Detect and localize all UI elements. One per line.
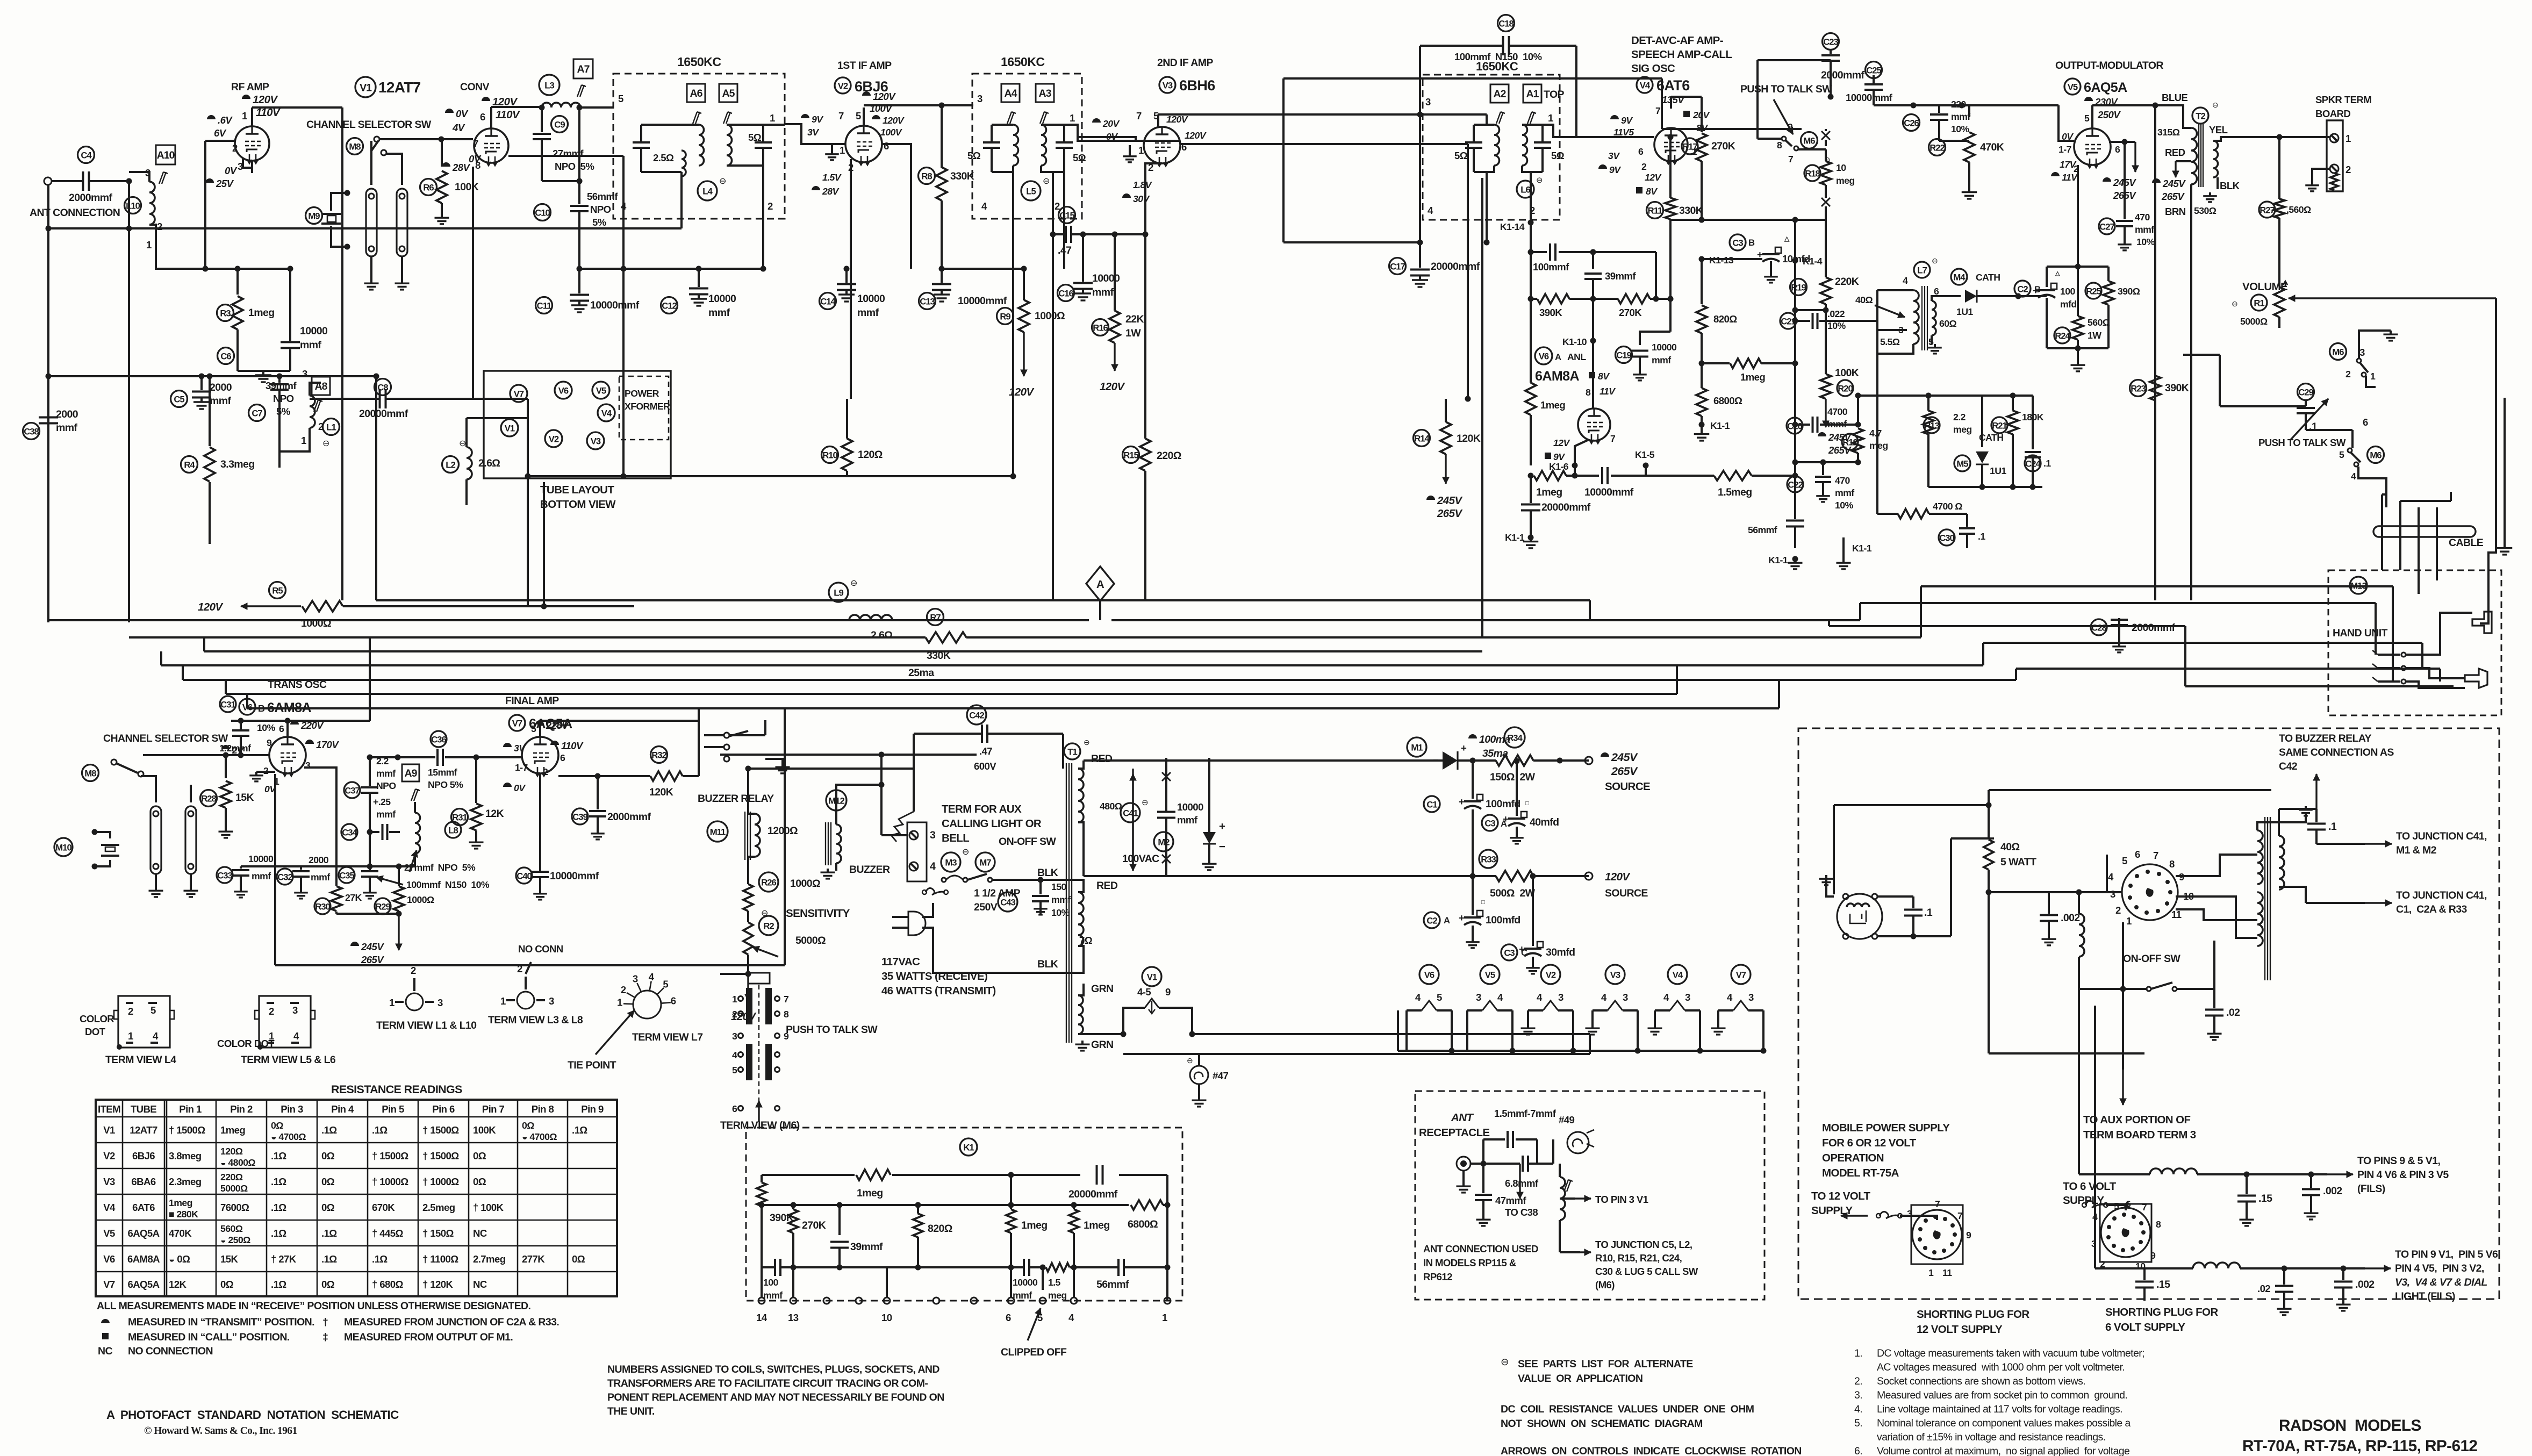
svg-text:C23: C23: [1823, 37, 1838, 47]
svg-text:4: 4: [1497, 992, 1503, 1003]
svg-text:† 120K: † 120K: [422, 1279, 454, 1290]
wire: [52, 180, 70, 182]
svg-text:11: 11: [1942, 1267, 1952, 1278]
wire bus jog L3: [1828, 620, 1830, 626]
svg-text:3: 3: [292, 1005, 298, 1016]
svg-text:mmf: mmf: [1652, 355, 1671, 365]
svg-text:3: 3: [2110, 888, 2115, 900]
svg-text:mmf: mmf: [300, 339, 321, 351]
svg-text:mmf: mmf: [1051, 894, 1071, 905]
svg-text:1meg: 1meg: [857, 1187, 883, 1199]
svg-text:2.2: 2.2: [1953, 412, 1966, 422]
label V1 12AT7: [355, 77, 376, 97]
svg-text:8: 8: [2169, 858, 2175, 870]
svg-text:2000mmf: 2000mmf: [69, 192, 112, 204]
svg-text:C11: C11: [537, 300, 551, 311]
resistor R7 330K: [927, 609, 944, 626]
svg-text:SHORTING PLUG FOR: SHORTING PLUG FOR: [2105, 1306, 2218, 1318]
svg-text:6AT6: 6AT6: [1656, 77, 1690, 94]
wire BRN trunk: [2190, 184, 2192, 600]
svg-text:V1: V1: [103, 1124, 115, 1136]
coil choke: [2079, 914, 2084, 957]
svg-text:7600Ω: 7600Ω: [220, 1202, 249, 1213]
svg-text:100mfd: 100mfd: [1486, 914, 1520, 926]
svg-text:V7: V7: [512, 718, 522, 728]
svg-text:1U1: 1U1: [1956, 306, 1973, 317]
svg-text:.1Ω: .1Ω: [271, 1279, 286, 1290]
resistor 270K: [792, 1205, 794, 1209]
svg-text:2000: 2000: [56, 408, 78, 420]
svg-text:0Ω: 0Ω: [321, 1202, 335, 1213]
svg-text:CALLING LIGHT OR: CALLING LIGHT OR: [942, 817, 1042, 830]
ground: [539, 890, 541, 894]
svg-text:† 1500Ω: † 1500Ω: [372, 1150, 408, 1161]
diode M1: [1407, 737, 1426, 757]
wire M12 top: [836, 785, 881, 795]
coil ant: [1560, 1177, 1565, 1220]
svg-text:4700 Ω: 4700 Ω: [1933, 501, 1962, 512]
svg-text:ARROWS ON CONTROLS INDICATE: ARROWS ON CONTROLS INDICATE CLOCKWISE RO…: [1501, 1445, 1802, 1456]
svg-text:Pin 6: Pin 6: [432, 1103, 455, 1115]
svg-text:COLOR: COLOR: [80, 1013, 114, 1024]
T1 HV secondary: [1078, 769, 1084, 822]
svg-text:3.: 3.: [1854, 1389, 1862, 1401]
wire B+ top: [252, 106, 342, 109]
svg-text:6800Ω: 6800Ω: [1128, 1218, 1158, 1230]
svg-text:12AT7: 12AT7: [130, 1124, 157, 1136]
wire: [2220, 405, 2306, 407]
wire: [1876, 487, 1878, 514]
resistor 390K: [757, 1182, 766, 1206]
svg-text:6AM8A: 6AM8A: [267, 700, 312, 715]
svg-text:5: 5: [2339, 449, 2344, 460]
buzzer M12: [826, 790, 847, 811]
svg-text:2.: 2.: [1854, 1375, 1862, 1387]
capacitor 56mmf: [1794, 476, 1796, 519]
wire rail2: [762, 1204, 1129, 1206]
wire vertical trunk: [1481, 178, 1483, 637]
svg-text:L1: L1: [326, 422, 336, 432]
svg-text:TIE POINT: TIE POINT: [568, 1059, 616, 1071]
svg-text:12V: 12V: [1553, 437, 1570, 448]
svg-text:.1Ω: .1Ω: [372, 1124, 388, 1136]
ground: [2124, 241, 2126, 245]
svg-text:2: 2: [232, 142, 238, 154]
wire audio line: [1874, 104, 2058, 106]
svg-text:5: 5: [732, 1065, 737, 1075]
wire: [992, 879, 1041, 881]
svg-text:−: −: [1219, 841, 1225, 853]
svg-text:120V: 120V: [198, 601, 224, 613]
svg-text:Nominal tolerance on component: Nominal tolerance on component values ma…: [1877, 1417, 2131, 1429]
svg-text:C18: C18: [1498, 18, 1514, 28]
resistor R28 15K: [200, 790, 217, 807]
svg-text:C25: C25: [1866, 65, 1881, 75]
svg-text:TERM VIEW L5 & L6: TERM VIEW L5 & L6: [241, 1054, 336, 1066]
resistor R23 390K: [2130, 380, 2147, 397]
svg-text:10: 10: [1836, 162, 1846, 173]
svg-text:.002: .002: [2323, 1185, 2342, 1197]
svg-text:mmf: mmf: [708, 307, 730, 319]
capacitor C20 4700mmf: [1787, 418, 1803, 434]
svg-text:M7: M7: [979, 857, 991, 867]
svg-text:0V: 0V: [225, 165, 238, 176]
svg-text:R32: R32: [651, 750, 666, 760]
resistor R16 22K 1W: [1092, 319, 1109, 336]
svg-text:500Ω 2W: 500Ω 2W: [1490, 887, 1536, 899]
svg-text:6.8mmf: 6.8mmf: [1505, 1178, 1539, 1189]
svg-text:M10: M10: [55, 842, 71, 852]
svg-text:8: 8: [2156, 1219, 2161, 1230]
switch M6c: [2368, 447, 2384, 463]
svg-text:TERM VIEW L1 & L10: TERM VIEW L1 & L10: [376, 1020, 477, 1031]
svg-text:4: 4: [1903, 275, 1908, 286]
wire: [1939, 140, 1969, 142]
wire: [2122, 922, 2124, 1070]
capacitor C25 10000mmf: [1866, 62, 1882, 78]
svg-text:TO C38: TO C38: [1505, 1207, 1538, 1218]
svg-text:110V: 110V: [561, 740, 584, 751]
svg-text:3.3meg: 3.3meg: [220, 458, 255, 470]
tuning capacitor: [983, 141, 1000, 144]
transformer 1650KC second dashed box: [972, 74, 1082, 219]
svg-text:CLIPPED OFF: CLIPPED OFF: [1001, 1346, 1067, 1358]
wire: [1559, 1220, 1561, 1252]
node K1-13: [1699, 256, 1705, 262]
svg-text:C26: C26: [1904, 118, 1919, 128]
svg-text:220: 220: [1951, 99, 1966, 110]
svg-text:2: 2: [269, 1006, 274, 1017]
wire y860 link: [1795, 461, 1858, 463]
svg-text:4: 4: [2092, 1211, 2098, 1222]
wire: [1052, 172, 1054, 234]
svg-text:.15: .15: [2156, 1279, 2170, 1290]
svg-text:V3, V4 & V7 & DIAL: V3, V4 & V7 & DIAL: [2395, 1276, 2487, 1288]
svg-text:265V: 265V: [361, 954, 384, 965]
wire: [1877, 289, 1913, 291]
wire left column: [761, 1175, 763, 1182]
capacitor C17 20000mmf: [1389, 258, 1406, 275]
wire: [527, 476, 529, 606]
svg-text:NPO 5%: NPO 5%: [428, 779, 463, 790]
svg-text:CONV: CONV: [460, 81, 490, 93]
measure arrows: [1132, 769, 1134, 871]
svg-text:R21: R21: [1992, 420, 2007, 431]
svg-text:† 1000Ω: † 1000Ω: [372, 1176, 408, 1187]
wire bus jog L4: [1982, 643, 1984, 665]
svg-text:SEE PARTS LIST FOR ALTERNA: SEE PARTS LIST FOR ALTERNATE: [1518, 1358, 1693, 1370]
wire HV bottom: [1078, 822, 1084, 876]
svg-text:⊖: ⊖: [1043, 177, 1050, 186]
wire: [1557, 758, 1563, 764]
T2 secondary coil: [2213, 141, 2218, 177]
wire plate: [1670, 97, 1672, 109]
svg-text:10000mmf: 10000mmf: [1584, 486, 1634, 498]
svg-text:3: 3: [732, 1031, 737, 1042]
svg-text:7: 7: [838, 110, 844, 121]
voltage: [445, 109, 454, 113]
resistor R19 220K: [1790, 279, 1807, 296]
svg-text:20000mmf: 20000mmf: [1431, 261, 1480, 272]
wire: [2257, 822, 2265, 830]
svg-text:MEASURED FROM JUNCTION OF C2A: MEASURED FROM JUNCTION OF C2A & R33.: [344, 1316, 559, 1328]
svg-text:100: 100: [2060, 286, 2075, 297]
svg-text:2: 2: [732, 1009, 737, 1020]
svg-text:† 1500Ω: † 1500Ω: [422, 1124, 459, 1136]
wire: [143, 754, 241, 756]
wire y736 rail: [1858, 395, 2033, 397]
svg-text:10000mmf: 10000mmf: [590, 299, 640, 311]
wire top: [1834, 804, 1989, 806]
wire: [310, 383, 321, 396]
wire: [1988, 790, 1990, 805]
svg-text:BLUE: BLUE: [2162, 92, 2187, 103]
svg-text:6: 6: [1006, 1312, 1011, 1323]
svg-text:C40: C40: [517, 871, 532, 881]
switch M8b: [82, 765, 99, 781]
capacitor 20000mmf: [1096, 1165, 1098, 1185]
ground: [240, 888, 242, 892]
svg-text:1: 1: [242, 110, 247, 121]
svg-text:K1: K1: [963, 1142, 974, 1152]
svg-text:4: 4: [153, 1030, 159, 1042]
svg-text:10: 10: [881, 1312, 892, 1323]
svg-text:R34: R34: [1507, 733, 1523, 743]
svg-text:V6: V6: [1539, 351, 1549, 361]
svg-text:† 1500Ω: † 1500Ω: [422, 1150, 459, 1161]
svg-text:C3: C3: [1504, 948, 1515, 958]
svg-text:100mfd: 100mfd: [1486, 798, 1520, 810]
svg-text:PUSH TO TALK SW: PUSH TO TALK SW: [2258, 437, 2346, 448]
primary coil: [699, 125, 704, 166]
svg-text:2.5meg: 2.5meg: [422, 1202, 455, 1213]
wire: [527, 399, 529, 476]
svg-text:+: +: [2033, 285, 2039, 296]
svg-text:.1: .1: [2328, 821, 2337, 833]
svg-text:RED: RED: [1096, 880, 1118, 892]
svg-text:5: 5: [2114, 1201, 2119, 1211]
tube V7 final amp: [522, 737, 558, 773]
power socket: [2122, 864, 2178, 920]
svg-text:TERM BOARD TERM 3: TERM BOARD TERM 3: [2083, 1129, 2196, 1141]
svg-text:C15: C15: [1059, 210, 1074, 220]
svg-text:1650KC: 1650KC: [677, 55, 721, 69]
capacitor C29 .1: [2298, 384, 2314, 400]
svg-text:5Ω: 5Ω: [748, 132, 762, 143]
wire: [1123, 1053, 1590, 1055]
svg-text:4700: 4700: [1827, 406, 1848, 417]
svg-text:5000Ω: 5000Ω: [2240, 316, 2268, 327]
resistor R30 27K: [314, 898, 331, 914]
svg-text:R1: R1: [2254, 298, 2264, 308]
capacitor C43 150mmf 10%: [998, 892, 1017, 912]
svg-text:NO CONN: NO CONN: [518, 943, 563, 955]
svg-text:1.5V: 1.5V: [822, 172, 842, 183]
capacitor C2A 100mfd: [1424, 912, 1440, 928]
svg-text:.47: .47: [979, 745, 992, 757]
svg-text:R14: R14: [1414, 433, 1430, 443]
svg-text:.47: .47: [1058, 245, 1071, 256]
wire: [1419, 46, 1421, 268]
switch M8: [347, 138, 363, 155]
svg-text:100mmf N150 10%: 100mmf N150 10%: [406, 879, 490, 890]
capacitor C12 10000mmf: [661, 297, 678, 314]
voltage: [242, 95, 250, 99]
svg-text:TERM VIEW L7: TERM VIEW L7: [632, 1031, 702, 1043]
svg-text:FINAL AMP: FINAL AMP: [505, 695, 559, 707]
ground: [941, 290, 943, 295]
svg-text:M6: M6: [2332, 347, 2344, 357]
svg-text:4: 4: [1663, 992, 1669, 1003]
earpiece: [2472, 612, 2492, 633]
wire plate to R8: [941, 105, 943, 168]
svg-text:6: 6: [2135, 849, 2140, 860]
svg-text:IN MODELS RP115 &: IN MODELS RP115 &: [1423, 1257, 1516, 1268]
svg-text:† 100K: † 100K: [473, 1202, 504, 1213]
hand unit switch contacts: [2401, 652, 2406, 657]
x marks: [1162, 772, 1171, 781]
filament chokes row1: [2150, 1168, 2197, 1174]
svg-text:6: 6: [560, 752, 565, 763]
capacitor C31 1.2mmf 10%: [220, 696, 236, 712]
svg-text:245V: 245V: [1611, 751, 1638, 764]
wire M6 to R18: [1798, 148, 1826, 150]
wire cathode: [1575, 440, 1589, 465]
coil L1: [310, 396, 315, 428]
svg-text:THE UNIT.: THE UNIT.: [607, 1405, 655, 1417]
wire plate: [490, 110, 492, 130]
svg-text:12K: 12K: [169, 1279, 187, 1290]
resistor R13 2.2meg: [1924, 417, 1940, 433]
svg-text:10000: 10000: [248, 853, 274, 864]
svg-text:PIN 4 V6 & PIN 3 V5: PIN 4 V6 & PIN 3 V5: [2357, 1169, 2449, 1181]
wire plate V3: [1157, 114, 1159, 127]
svg-text:8V: 8V: [1598, 371, 1610, 382]
slug A2: [1490, 84, 1509, 103]
svg-text:NPO: NPO: [590, 204, 611, 215]
svg-text:C13: C13: [920, 296, 935, 306]
resistor 1meg mid: [1010, 1175, 1012, 1209]
svg-text:⊖: ⊖: [322, 439, 329, 448]
svg-text:560Ω: 560Ω: [2088, 317, 2110, 328]
svg-text:R25: R25: [2086, 286, 2101, 296]
svg-text:1meg: 1meg: [1021, 1220, 1048, 1231]
svg-text:4.: 4.: [1854, 1403, 1862, 1415]
wire: [1592, 299, 1594, 404]
relay M11 1200ohm: [707, 821, 728, 842]
svg-text:C28: C28: [2091, 622, 2106, 633]
svg-text:† 445Ω: † 445Ω: [372, 1228, 404, 1239]
svg-text:◒ 0Ω: ◒ 0Ω: [169, 1253, 190, 1265]
svg-text:R29: R29: [375, 901, 390, 912]
svg-text:V1: V1: [1147, 972, 1157, 982]
svg-text:† 1100Ω: † 1100Ω: [422, 1253, 458, 1265]
svg-text:5Ω: 5Ω: [1454, 150, 1468, 161]
svg-text:mmf: mmf: [763, 1290, 783, 1301]
svg-text:TO BUZZER RELAY: TO BUZZER RELAY: [2279, 733, 2372, 744]
svg-text:BUZZER RELAY: BUZZER RELAY: [698, 793, 774, 805]
svg-text:AC voltages measured with 100: AC voltages measured with 1000 ohm per v…: [1877, 1361, 2125, 1373]
svg-text:FOR 6 OR 12 VOLT: FOR 6 OR 12 VOLT: [1822, 1137, 1917, 1149]
svg-text:3: 3: [305, 760, 311, 771]
svg-text:◒ 250Ω: ◒ 250Ω: [220, 1235, 250, 1245]
svg-text:2000mmf: 2000mmf: [1821, 69, 1864, 81]
svg-text:1: 1: [389, 997, 394, 1008]
ac plug: [908, 912, 926, 935]
wire pin4 down: [1012, 172, 1014, 476]
svg-text:6800Ω: 6800Ω: [1713, 395, 1742, 406]
svg-text:330K: 330K: [1679, 205, 1703, 217]
wire bus y1318: [247, 707, 1779, 709]
tuning capacitor: [1056, 141, 1073, 144]
wire: [579, 106, 613, 109]
wire: [579, 268, 623, 270]
capacitor C15 .47: [1059, 207, 1075, 224]
capacitor .02 row2: [2283, 1268, 2285, 1285]
svg-text:variation of ±15% in voltage a: variation of ±15% in voltage and resista…: [1877, 1431, 2106, 1443]
svg-text:NPO: NPO: [376, 780, 396, 791]
svg-text:.02: .02: [2226, 1007, 2240, 1019]
wire B+ trunk: [341, 107, 343, 600]
svg-text:RT-70A, RT-75A, RP-115, RP-612: RT-70A, RT-75A, RP-115, RP-612: [2242, 1437, 2477, 1455]
svg-text:V5: V5: [1485, 970, 1495, 980]
svg-text:6: 6: [2115, 144, 2120, 155]
wire cathode gnd: [256, 771, 275, 773]
capacitor .002 row1: [2310, 1174, 2312, 1188]
svg-text:530Ω: 530Ω: [2194, 205, 2217, 216]
wires into hand unit: [2375, 650, 2377, 655]
svg-text:5%: 5%: [592, 217, 607, 228]
primary winding bottom: [2257, 892, 2263, 946]
svg-text:+: +: [1219, 820, 1225, 833]
svg-text:mmf: mmf: [857, 307, 879, 319]
svg-text:ON-OFF SW: ON-OFF SW: [999, 836, 1056, 848]
svg-text:COLOR DOT: COLOR DOT: [217, 1038, 275, 1049]
svg-text:220Ω: 220Ω: [1157, 450, 1181, 462]
svg-text:TOP: TOP: [1544, 89, 1565, 101]
slug A1: [1523, 84, 1541, 103]
term view L7 TIE POINT: [633, 991, 661, 1019]
svg-text:TO 12 VOLT: TO 12 VOLT: [1811, 1190, 1871, 1202]
svg-text:RF AMP: RF AMP: [231, 81, 269, 93]
svg-text:100: 100: [763, 1277, 778, 1288]
svg-text:670K: 670K: [372, 1202, 395, 1213]
svg-text:Pin 1: Pin 1: [179, 1103, 202, 1115]
svg-text:1: 1: [2370, 371, 2376, 382]
svg-text:27K: 27K: [345, 892, 362, 903]
resistor R25 390ohm: [2085, 283, 2101, 299]
svg-text:245V: 245V: [361, 941, 384, 952]
svg-text:5Ω: 5Ω: [1551, 150, 1565, 161]
svg-text:.1: .1: [1978, 531, 1985, 542]
wire relay top: [747, 769, 749, 814]
label CLIPPED OFF: [1028, 1308, 1041, 1340]
svg-text:⊖: ⊖: [962, 848, 969, 857]
svg-text:20V: 20V: [1102, 118, 1120, 129]
capacitor C35 100mmf N150 10%: [339, 867, 355, 883]
svg-text:28V: 28V: [822, 186, 840, 197]
voice coil zigzag: [2330, 173, 2338, 190]
svg-text:39mmf: 39mmf: [1605, 270, 1636, 282]
secondary coil: [1041, 125, 1046, 166]
svg-text:4: 4: [1727, 992, 1733, 1003]
svg-text:V5: V5: [2068, 82, 2078, 92]
svg-text:C9: C9: [554, 119, 565, 130]
arrow fils 2: [2365, 1267, 2391, 1269]
svg-text:M1: M1: [1411, 742, 1423, 752]
svg-text:mmf: mmf: [1951, 111, 1970, 122]
capacitor C22 470mmf 10%: [1787, 476, 1803, 492]
